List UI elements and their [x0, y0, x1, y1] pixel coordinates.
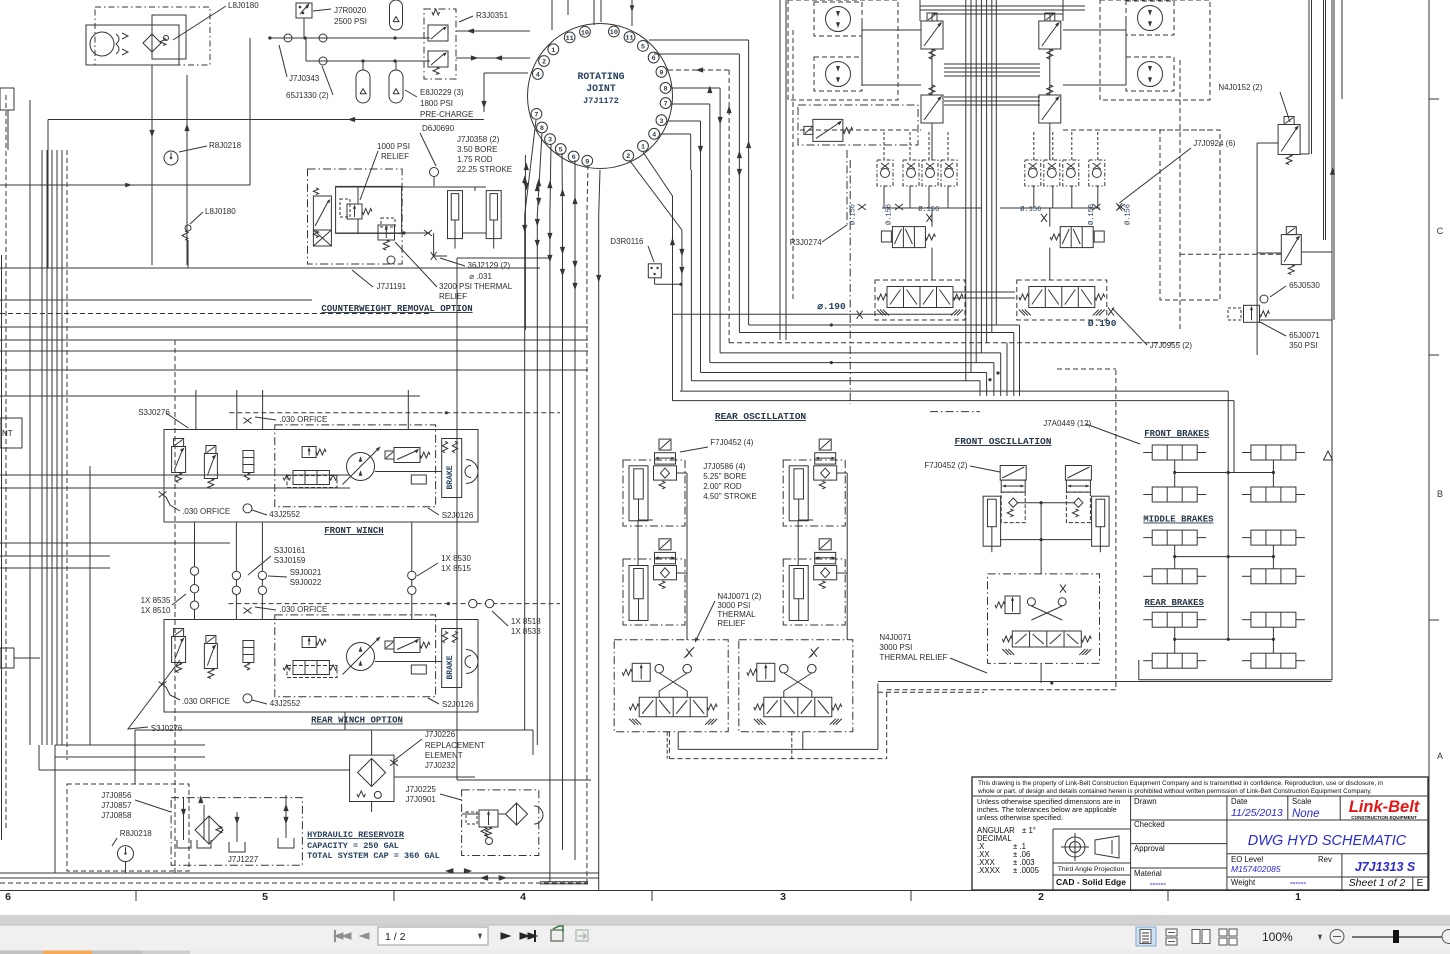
svg-text:1X 8530: 1X 8530 [441, 554, 471, 563]
svg-text:ELEMENT: ELEMENT [425, 751, 463, 760]
svg-text:A: A [1437, 751, 1443, 761]
svg-text:REAR OSCILLATION: REAR OSCILLATION [715, 411, 807, 422]
svg-text:4: 4 [536, 72, 540, 80]
svg-text:S9J0022: S9J0022 [290, 578, 322, 587]
svg-text:Ø.156: Ø.156 [885, 204, 894, 225]
svg-text:1X 8533: 1X 8533 [511, 627, 541, 636]
svg-text:J7J1172: J7J1172 [583, 96, 619, 106]
svg-text:± .0005: ± .0005 [1013, 866, 1040, 875]
svg-text:R8J0218: R8J0218 [120, 829, 153, 838]
svg-text:7: 7 [534, 111, 538, 119]
svg-text:1: 1 [1295, 891, 1301, 903]
svg-text:S3J0276: S3J0276 [151, 724, 183, 733]
svg-text:6: 6 [5, 891, 11, 903]
svg-text:.030 ORFICE: .030 ORFICE [182, 507, 230, 516]
svg-text:E8J0229 (3): E8J0229 (3) [420, 88, 464, 97]
svg-text:Scale: Scale [1292, 797, 1312, 806]
svg-text:whole or part, of design and d: whole or part, of design and details con… [977, 788, 1372, 795]
svg-text:2: 2 [626, 153, 630, 161]
svg-text:J7J1227: J7J1227 [228, 855, 259, 864]
svg-text:9: 9 [659, 69, 663, 77]
svg-text:BRAKE: BRAKE [446, 655, 455, 679]
svg-text:D6J0690: D6J0690 [422, 124, 455, 133]
svg-text:4.50" STROKE: 4.50" STROKE [703, 492, 757, 501]
svg-text:1X 8510: 1X 8510 [141, 606, 171, 615]
svg-text:L8J0180: L8J0180 [228, 1, 259, 10]
svg-text:CAPACITY = 250 GAL: CAPACITY = 250 GAL [307, 841, 399, 851]
svg-text:5.25" BORE: 5.25" BORE [703, 472, 746, 481]
svg-text:R3J0274: R3J0274 [790, 238, 823, 247]
svg-text:Third Angle Projection: Third Angle Projection [1058, 866, 1125, 873]
svg-text:DWG HYD SCHEMATIC: DWG HYD SCHEMATIC [1248, 833, 1407, 849]
svg-text:⌀.190: ⌀.190 [817, 301, 846, 312]
svg-text:unless otherwise specified.: unless otherwise specified. [977, 813, 1063, 822]
svg-text:CAD - Solid Edge: CAD - Solid Edge [1056, 877, 1126, 887]
svg-text:J7J0901: J7J0901 [406, 795, 437, 804]
svg-text:This drawing is the property o: This drawing is the property of Link-Bel… [978, 780, 1383, 787]
svg-text:REPLACEMENT: REPLACEMENT [425, 741, 485, 750]
svg-text:S3J0276: S3J0276 [138, 408, 170, 417]
svg-text:3000 PSI: 3000 PSI [717, 601, 750, 610]
svg-text:± 1°: ± 1° [1022, 826, 1036, 835]
svg-text:11: 11 [566, 35, 574, 43]
svg-text:RELIEF: RELIEF [717, 619, 745, 628]
svg-text:43J2552: 43J2552 [269, 510, 300, 519]
svg-text:1.75 ROD: 1.75 ROD [457, 155, 493, 164]
svg-text:J7J0924 (6): J7J0924 (6) [1193, 139, 1236, 148]
svg-text:.030 ORFICE: .030 ORFICE [279, 415, 327, 424]
svg-text:3200 PSI THERMAL: 3200 PSI THERMAL [439, 282, 513, 291]
svg-text:Rev: Rev [1318, 855, 1332, 864]
svg-text:36J2129 (2): 36J2129 (2) [468, 261, 511, 270]
svg-text:J7R0020: J7R0020 [334, 6, 367, 15]
svg-text:RELIEF: RELIEF [439, 292, 467, 301]
svg-text:R3J0351: R3J0351 [476, 11, 509, 20]
svg-text:J7A0449 (12): J7A0449 (12) [1043, 419, 1091, 428]
svg-text:D3R0116: D3R0116 [610, 237, 644, 246]
svg-text:THERMAL RELIEF: THERMAL RELIEF [879, 653, 947, 662]
svg-text:2: 2 [542, 59, 546, 67]
svg-text:S3J0161: S3J0161 [274, 546, 306, 555]
svg-text:1X 8518: 1X 8518 [511, 617, 541, 626]
svg-text:S3J0159: S3J0159 [274, 556, 306, 565]
svg-text:J7J0232: J7J0232 [425, 761, 456, 770]
svg-text:REAR WINCH OPTION: REAR WINCH OPTION [311, 716, 403, 726]
svg-text:J7J0226: J7J0226 [425, 730, 456, 739]
svg-text:9: 9 [585, 158, 589, 166]
svg-text:THERMAL: THERMAL [717, 610, 756, 619]
svg-text:F7J0452 (2): F7J0452 (2) [924, 461, 967, 470]
svg-text:FRONT WINCH: FRONT WINCH [324, 526, 383, 536]
svg-text:L8J0180: L8J0180 [205, 207, 236, 216]
svg-text:65J1330 (2): 65J1330 (2) [286, 91, 329, 100]
svg-text:RELIEF: RELIEF [381, 152, 409, 161]
svg-text:Ø.156: Ø.156 [1123, 204, 1132, 225]
svg-text:Sheet 1 of 2: Sheet 1 of 2 [1349, 877, 1406, 889]
svg-text:5: 5 [262, 891, 268, 903]
svg-text:11: 11 [625, 35, 633, 43]
svg-text:E: E [1417, 878, 1424, 889]
svg-text:REAR BRAKES: REAR BRAKES [1144, 598, 1204, 608]
svg-text:Drawn: Drawn [1134, 797, 1157, 806]
svg-text:22.25 STROKE: 22.25 STROKE [457, 165, 512, 174]
svg-text:N4J0152 (2): N4J0152 (2) [1218, 83, 1262, 92]
svg-text:Material: Material [1134, 869, 1162, 878]
svg-text:10: 10 [610, 29, 618, 37]
svg-text:J7J0225: J7J0225 [406, 785, 437, 794]
svg-text:TOTAL SYSTEM CAP = 360 GAL: TOTAL SYSTEM CAP = 360 GAL [307, 851, 440, 861]
svg-text:J7J0586 (4): J7J0586 (4) [703, 462, 746, 471]
svg-text:1800 PSI: 1800 PSI [420, 99, 453, 108]
svg-text:3.50 BORE: 3.50 BORE [457, 145, 497, 154]
svg-text:350 PSI: 350 PSI [1289, 341, 1317, 350]
svg-text:COUNTERWEIGHT REMOVAL OPTION: COUNTERWEIGHT REMOVAL OPTION [321, 304, 472, 314]
svg-text:FRONT OSCILLATION: FRONT OSCILLATION [955, 436, 1052, 447]
svg-text:1: 1 [551, 47, 555, 55]
svg-text:43J2552: 43J2552 [270, 699, 301, 708]
svg-text:5: 5 [641, 43, 645, 51]
svg-text:2: 2 [1038, 891, 1044, 903]
svg-text:------: ------ [1150, 879, 1166, 888]
svg-text:4: 4 [652, 131, 656, 139]
svg-text:R8J0218: R8J0218 [209, 141, 242, 150]
svg-text:4: 4 [520, 891, 526, 903]
svg-text:.030 ORFICE: .030 ORFICE [279, 605, 327, 614]
svg-text:2500 PSI: 2500 PSI [334, 17, 367, 26]
svg-text:BRAKE: BRAKE [446, 465, 455, 489]
svg-text:MIDDLE BRAKES: MIDDLE BRAKES [1143, 515, 1214, 525]
svg-text:Link-Belt: Link-Belt [1349, 798, 1421, 816]
svg-text:Ø.156: Ø.156 [1087, 204, 1096, 225]
svg-text:PRE-CHARGE: PRE-CHARGE [420, 110, 473, 119]
svg-text:7: 7 [664, 101, 668, 109]
svg-text:10: 10 [581, 29, 589, 37]
svg-text:CONSTRUCTION EQUIPMENT: CONSTRUCTION EQUIPMENT [1351, 815, 1417, 820]
svg-text:65J0071: 65J0071 [1289, 331, 1320, 340]
svg-text:11/25/2013: 11/25/2013 [1231, 807, 1283, 819]
svg-text:Ø.156: Ø.156 [848, 204, 857, 225]
svg-text:S2J0126: S2J0126 [442, 511, 474, 520]
svg-text:J7J1313 S: J7J1313 S [1355, 860, 1416, 874]
svg-text:N4J0071 (2): N4J0071 (2) [717, 592, 761, 601]
svg-text:1000 PSI: 1000 PSI [377, 142, 410, 151]
svg-text:1: 1 [641, 144, 645, 152]
svg-text:J7J0955 (2): J7J0955 (2) [1150, 341, 1193, 350]
svg-text:------: ------ [1290, 878, 1306, 887]
svg-text:Ø.156: Ø.156 [1020, 205, 1041, 214]
svg-text:None: None [1292, 808, 1320, 820]
svg-text:NT: NT [2, 429, 13, 438]
svg-text:8: 8 [663, 86, 667, 94]
svg-text:6: 6 [652, 55, 656, 63]
svg-text:FRONT BRAKES: FRONT BRAKES [1144, 429, 1209, 439]
svg-text:N4J0071: N4J0071 [879, 633, 912, 642]
svg-text:1 / 2: 1 / 2 [385, 931, 406, 943]
svg-text:S2J0126: S2J0126 [442, 700, 474, 709]
svg-text:1X 8535: 1X 8535 [141, 596, 171, 605]
svg-text:Checked: Checked [1134, 820, 1165, 829]
svg-text:J7J1191: J7J1191 [377, 282, 407, 291]
svg-text:J7J0856: J7J0856 [101, 791, 132, 800]
svg-text:1X 8515: 1X 8515 [441, 564, 471, 573]
svg-text:C: C [1437, 226, 1444, 236]
svg-text:65J0530: 65J0530 [1289, 281, 1320, 290]
svg-text:100%: 100% [1262, 930, 1293, 944]
svg-text:.XXXX: .XXXX [977, 866, 1001, 875]
svg-text:Date: Date [1231, 797, 1247, 806]
svg-text:Weight: Weight [1231, 878, 1256, 887]
svg-text:3: 3 [780, 891, 786, 903]
svg-text:EO Level: EO Level [1231, 855, 1263, 864]
svg-text:ROTATING: ROTATING [577, 71, 624, 82]
svg-text:⌀ .031: ⌀ .031 [469, 272, 492, 281]
svg-text:2.00" ROD: 2.00" ROD [703, 482, 742, 491]
svg-text:8: 8 [540, 125, 544, 133]
svg-text:HYDRAULIC RESERVOIR: HYDRAULIC RESERVOIR [307, 830, 405, 840]
svg-text:J7J0857: J7J0857 [101, 801, 132, 810]
svg-text:3000 PSI: 3000 PSI [879, 643, 912, 652]
svg-text:M157402085: M157402085 [1231, 864, 1281, 874]
svg-text:3: 3 [548, 137, 552, 145]
svg-text:J7J0858: J7J0858 [101, 811, 132, 820]
svg-text:B: B [1437, 489, 1443, 499]
svg-text:J7J0343: J7J0343 [289, 74, 320, 83]
svg-text:F7J0452 (4): F7J0452 (4) [710, 438, 753, 447]
svg-text:Ø.190: Ø.190 [1088, 318, 1117, 329]
svg-text:J7J0358 (2): J7J0358 (2) [457, 135, 500, 144]
svg-text:3: 3 [659, 118, 663, 126]
svg-text:S9J0021: S9J0021 [290, 568, 322, 577]
svg-text:Approval: Approval [1134, 844, 1165, 853]
svg-text:.030 ORFICE: .030 ORFICE [182, 697, 230, 706]
svg-text:JOINT: JOINT [586, 83, 616, 94]
